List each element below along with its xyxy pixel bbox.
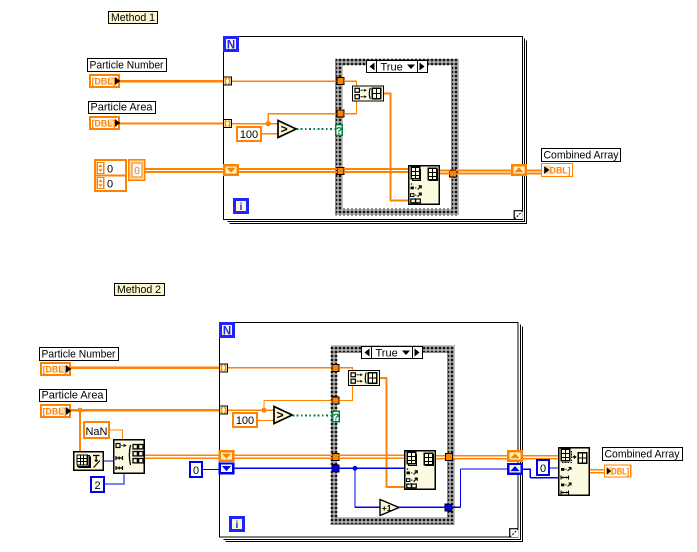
wire Particle Area inside loop 1 [232,123,268,124]
svg-text:100: 100 [236,415,254,427]
svg-text:100: 100 [240,129,258,141]
for-loop 1 page curl [514,210,523,219]
for-loop 1 shadow frames [228,39,527,224]
wire build array 2 output down [385,378,387,488]
blue wire tunnel to replace array subset index [339,468,404,469]
blue wire shift register to case 2 tunnel [234,468,332,469]
shift register left terminal (loop 1) [223,164,239,176]
wire tunnel to build array input 1 [344,81,357,82]
wire up into build array [356,101,357,114]
wire into replace array subset [391,199,409,201]
label "Combined Array" (method 1) [542,149,621,162]
svg-text:Particle Area: Particle Area [91,102,154,114]
numeric constant "NaN" [84,422,109,438]
case 2 tunnel Particle Number [332,364,339,371]
2-D array wire replace array subset to tunnel [440,170,450,175]
2-D array wire shift register to array subset [522,455,558,460]
blue wire tunnel to corner [452,507,461,508]
auto-index tunnel Particle Number (loop 2) [220,364,228,372]
DBL array control Particle Area (method 2) [41,405,72,418]
case structure 1 border [336,59,459,216]
shift register right terminal (loop 1) [511,164,527,176]
for-loop 2 page curl [510,528,519,537]
auto-index tunnel Particle Area (loop 2) [220,406,228,414]
greater-than comparator (method 2) [274,407,292,424]
wire build array output down [389,94,391,202]
DBL array control Particle Number (method 2) [41,363,72,376]
2-D array wire tunnel to shift register (method 2) [453,455,509,460]
boolean wire to case 2 selector (dotted green) [293,415,333,417]
case 1 tunnel 2-D array in [337,168,344,175]
case 2 tunnel result out [446,454,453,461]
case 2 tunnel 2-D array in [332,453,339,460]
wire to comparator top input [268,123,278,124]
svg-text:0: 0 [193,465,199,477]
wire to comparator top input [264,410,274,411]
numeric constant "0" left (blue) [190,462,202,477]
label "Particle Area" [89,102,156,114]
numeric constant "0" right (blue) [537,460,549,475]
blue wire shift register to array subset [522,469,531,470]
orange shift register right terminal (loop 2) [507,450,523,462]
2-D array wire to case 2 [233,455,332,460]
wire branch to case 1 tunnel [268,113,338,114]
2-D array wire initialize array to shift register [145,455,221,460]
array size node [74,452,104,471]
wire up into build array (method 2) [352,386,353,401]
for-loop 1 border [224,37,523,220]
blue wire to increment [355,507,380,508]
case 2 tunnel index in (blue) [332,465,339,472]
blue shift register left terminal (loop 2) [219,462,235,474]
boolean wire comparator to case selector (dotted green) [297,128,336,130]
blue wire down (right of loop 2) [530,469,531,478]
case 2 tunnel index out (blue) [445,504,452,511]
case 2 selector label "True" [362,347,423,360]
2-D array wire to indicator [526,170,542,175]
wire tunnel to build array input 2 [344,113,357,114]
for-loop 2 border [220,323,519,538]
2-D array wire to case 1 [238,168,337,173]
wire down into build array [356,81,357,86]
auto-index tunnel Particle Number (loop 1) [224,77,232,85]
replace array subset node (method 2) [405,451,436,490]
wire 100 to comparator (method 2) [258,420,274,421]
2-D array constant (method 1) [95,160,126,191]
wire tunnel to build array input 2 (method 2) [339,400,353,401]
wire branch up (method 2) [263,401,264,411]
orange shift register left terminal (loop 2) [219,450,235,462]
wire build array 2 output [380,377,387,379]
blue wire junction [353,466,358,471]
wire Particle Area to loop 1 (1-D array) [120,123,223,125]
DBL array control Particle Number (method 1) [90,75,121,88]
DBL array indicator Combined Array (method 1) [542,164,573,177]
svg-text:NaN: NaN [85,426,107,438]
case 1 tunnel Particle Number [337,78,344,85]
blue wire increment to tunnel [399,507,446,508]
wire 0 to array subset index [550,467,559,468]
label "Particle Number" (method 2) [40,348,119,361]
case 1 selector terminal "?" [336,125,343,137]
blue wire down to increment [354,468,355,507]
DBL array control Particle Area (method 1) [90,117,121,130]
svg-text:Combined Array: Combined Array [605,449,680,461]
numeric constant "100" (method 2) [233,413,257,427]
wire junction Particle Area (method 2) [77,408,82,413]
initialize array node [114,440,145,474]
case 1 tunnel result out [450,170,457,177]
svg-text:Particle Area: Particle Area [42,390,105,402]
wire 2 up into initialize array [123,474,124,484]
label "Combined Array" (method 2) [603,448,683,461]
wire Particle Number to loop 2 (1-D array) [71,367,219,369]
wire junction inside loop 2 [261,408,266,413]
array subset node [559,448,590,496]
numeric constant "2" (blue) [91,477,104,492]
blue shift register right terminal (loop 2) [507,463,523,475]
numeric constant "100" (method 1) [237,127,261,141]
2-D array wire constant to shift register [145,168,224,173]
increment +1 node [380,500,399,516]
2-D array wire array subset to indicator [590,469,605,474]
DBL array indicator Combined Array (method 2) [604,465,630,477]
2-D array wire tunnel to shift register [456,170,512,175]
wire branch to case 2 tunnel [264,400,332,401]
wire 0 to blue shift register [203,469,221,470]
wire branch down to array size [79,410,81,451]
svg-text:0: 0 [540,463,546,475]
loop count terminal N (loop 2) [219,322,235,338]
Method 2 free label [115,284,165,297]
build array node (method 1) [353,86,384,101]
wire Particle Area to loop 2 (1-D array) [71,409,219,411]
wire NaN to initialize array [109,429,123,430]
svg-text:Particle Number: Particle Number [90,60,164,72]
wire junction Particle Area [266,121,271,126]
auto-index tunnel Particle Area (loop 1) [224,120,232,128]
wire Particle Number inside loop 2 [228,367,332,368]
svg-text:Particle Number: Particle Number [42,349,116,361]
2-D array wire out of replace array subset [436,455,446,460]
blue wire up [460,469,461,507]
case 2 selector terminal "?" [333,411,340,423]
wire tunnel to build array input 1 (method 2) [339,367,353,368]
wire NaN down into initialize array [122,430,123,440]
iteration terminal i (loop 1) [233,198,249,214]
wire Particle Area inside loop 2 [228,410,264,411]
label "Particle Number" [88,59,167,72]
svg-text:Method 2: Method 2 [117,284,161,296]
greater-than comparator (method 1) [278,121,296,138]
2-D array wire to replace array subset [344,168,408,173]
array element display (method 1) [129,160,145,181]
blue wire into array subset length [530,477,558,478]
svg-text:2: 2 [94,480,100,492]
wire down into build array (method 2) [352,368,353,371]
case 2 tunnel branch [332,397,339,404]
label "Particle Area" (method 2) [40,390,107,402]
wire array size to initialize array (blue i32) [104,460,114,461]
wire build array output [384,92,392,94]
wire into replace array subset (method 2) [387,486,405,488]
iteration terminal i (loop 2) [229,516,245,532]
replace array subset node (method 1) [409,166,440,205]
case structure 2 border [331,346,455,525]
blue wire to blue shift register [461,468,509,469]
build array node (method 2) [349,371,380,386]
for-loop 2 shadow frames [224,325,523,542]
loop count terminal N (loop 1) [223,36,239,52]
svg-text:Method 1: Method 1 [111,12,155,24]
case 1 tunnel branch [337,110,344,117]
wire Particle Number inside loop 1 [232,81,338,82]
svg-text:Combined Array: Combined Array [544,150,619,162]
Method 1 free label [109,12,158,25]
wire 2 to initialize array [104,483,125,484]
wire branch up [268,114,269,124]
2-D array wire to replace array subset (method 2) [339,455,405,460]
wire Particle Number to loop 1 (1-D array) [120,80,223,82]
wire 100 to comparator [261,133,278,134]
case 1 selector label "True" [367,61,428,74]
